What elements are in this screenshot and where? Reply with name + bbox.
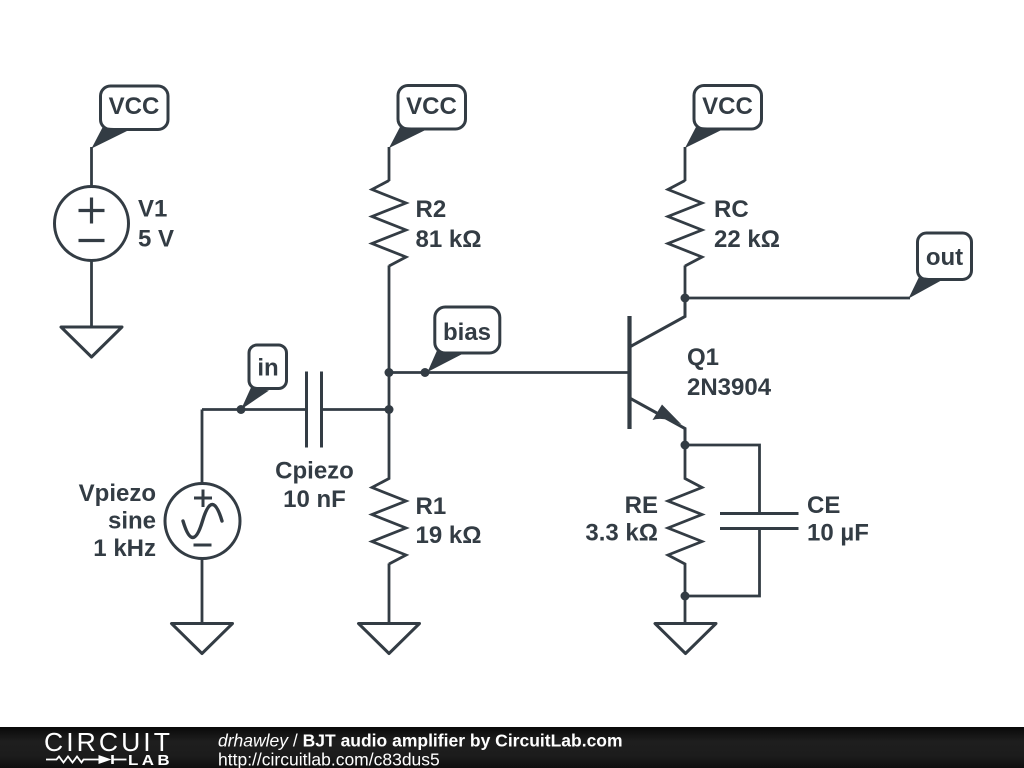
node dot bias <box>421 368 430 377</box>
svg-text:VCC: VCC <box>702 93 753 120</box>
svg-text:VCC: VCC <box>406 93 457 120</box>
node dot in <box>237 405 246 414</box>
label CE name and value <box>807 492 869 547</box>
svg-text:22 kΩ: 22 kΩ <box>714 226 780 253</box>
wire VCC flag to V1 <box>90 147 93 188</box>
voltage source Vpiezo <box>165 484 240 559</box>
svg-text:in: in <box>257 355 278 382</box>
svg-text:drhawley / BJT audio amplifier: drhawley / BJT audio amplifier by Circui… <box>218 731 623 751</box>
net flag VCC (RC branch) <box>685 86 762 149</box>
net flag in <box>241 345 287 410</box>
wire in node horizontal <box>202 408 305 411</box>
svg-text:http://circuitlab.com/c83dus5: http://circuitlab.com/c83dus5 <box>218 750 440 768</box>
svg-text:10 nF: 10 nF <box>283 486 346 513</box>
junction dot at Cpiezo/R1 <box>385 405 394 414</box>
svg-text:RC: RC <box>714 196 749 223</box>
wire Cpiezo to bias node <box>323 408 389 411</box>
svg-text:Vpiezo: Vpiezo <box>79 480 156 507</box>
svg-text:Cpiezo: Cpiezo <box>275 458 354 485</box>
net flag out <box>909 233 972 299</box>
svg-text:81 kΩ: 81 kΩ <box>416 226 482 253</box>
label R2 name and value <box>416 196 482 253</box>
label RE name and value <box>585 492 658 547</box>
svg-text:V1: V1 <box>138 196 167 223</box>
label RC name and value <box>714 196 780 253</box>
wire R1 to ground <box>388 564 391 624</box>
wire CE bottom to emitter ground node <box>685 529 760 597</box>
junction dot RE/CE bottom <box>681 592 690 601</box>
wire Vpiezo to ground <box>201 559 204 624</box>
svg-text:10 µF: 10 µF <box>807 520 869 547</box>
svg-text:out: out <box>926 244 963 271</box>
svg-text:2N3904: 2N3904 <box>687 374 772 401</box>
junction dot emitter <box>681 441 690 450</box>
ground (R1) <box>359 624 420 654</box>
svg-text:CE: CE <box>807 492 840 519</box>
footer credit line 2 url <box>218 750 440 768</box>
ground (Vpiezo) <box>172 624 233 654</box>
svg-text:bias: bias <box>443 319 491 346</box>
capacitor CE <box>720 514 799 529</box>
svg-text:5 V: 5 V <box>138 226 174 253</box>
label Q1 name and value <box>687 344 772 401</box>
label Cpiezo name and value <box>275 458 354 514</box>
svg-text:VCC: VCC <box>109 93 160 120</box>
wire in node to Vpiezo <box>201 410 204 485</box>
svg-text:1 kHz: 1 kHz <box>93 535 156 562</box>
net flag VCC (V1 branch) <box>92 86 169 149</box>
resistor R1 <box>372 410 406 565</box>
wire collector node to out flag <box>685 297 910 300</box>
net flag VCC (R2 branch) <box>389 86 466 149</box>
net flag bias <box>428 307 500 372</box>
resistor RE <box>668 445 702 596</box>
label V1 name and value <box>138 196 174 253</box>
resistor R2 <box>372 181 406 267</box>
CircuitLab logo resistor-diode glyph <box>46 755 127 764</box>
capacitor Cpiezo <box>307 372 322 448</box>
CircuitLab logo LAB text <box>128 752 173 768</box>
svg-text:R1: R1 <box>416 493 447 520</box>
svg-text:3.3 kΩ: 3.3 kΩ <box>585 520 658 547</box>
svg-text:sine: sine <box>108 508 156 535</box>
voltage source V1 <box>55 187 129 261</box>
svg-text:19 kΩ: 19 kΩ <box>416 522 482 549</box>
resistor RC <box>668 181 702 267</box>
footer bar <box>0 727 1024 768</box>
ground (RE) <box>655 624 716 654</box>
wire R2 to bias junction <box>388 266 391 410</box>
footer credit line 1 <box>218 731 623 751</box>
wire V1 to ground <box>90 261 93 328</box>
svg-text:Q1: Q1 <box>687 344 719 371</box>
svg-text:LAB: LAB <box>128 752 173 768</box>
transistor Q1 2N3904 <box>630 298 686 445</box>
junction dot collector/out <box>681 294 690 303</box>
wire emitter to CE top <box>685 445 760 513</box>
wire bias to Q1 base <box>389 371 630 374</box>
wire VCC to RC <box>684 147 687 181</box>
wire VCC to R2 <box>388 147 391 181</box>
wire RC to collector node <box>684 266 687 299</box>
junction dot bias/R2 <box>385 368 394 377</box>
ground (V1) <box>61 327 122 357</box>
svg-text:R2: R2 <box>416 196 447 223</box>
CircuitLab logo CIRCUIT text <box>44 727 173 757</box>
svg-text:RE: RE <box>625 492 658 519</box>
wire to ground (RE) <box>684 596 687 624</box>
label R1 name and value <box>416 493 482 549</box>
label Vpiezo name and value <box>79 480 156 562</box>
